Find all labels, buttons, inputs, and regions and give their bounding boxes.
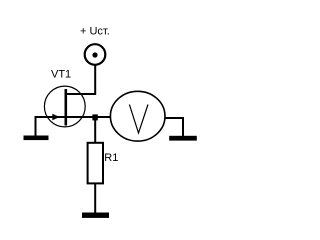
wire: terminal down and left to collector xyxy=(67,66,96,95)
transistor VT1 emitter arrow xyxy=(52,114,60,120)
wire: voltmeter right to ground xyxy=(165,118,183,136)
svg-text:R1: R1 xyxy=(104,152,118,164)
voltmeter V glyph xyxy=(129,105,148,134)
wire: R1 down to bottom ground xyxy=(94,184,96,213)
power terminal +Uct xyxy=(85,44,106,65)
ground (right) xyxy=(169,136,197,141)
voltmeter PV1 body xyxy=(110,91,165,141)
transistor VT1 base bar xyxy=(65,89,68,126)
wire: junction down to R1 xyxy=(94,119,96,142)
transistor VT1 body circle xyxy=(44,86,85,127)
ground (bottom) xyxy=(82,213,109,218)
wire: main horizontal node (ground-emitter-junction-voltmeter) xyxy=(35,116,111,118)
svg-text:+ Uст.: + Uст. xyxy=(80,26,110,38)
ground (left) xyxy=(24,136,49,141)
svg-text:VT1: VT1 xyxy=(51,69,71,81)
wire: left drop to ground xyxy=(35,117,37,136)
resistor R1 xyxy=(88,143,103,184)
junction node dot xyxy=(92,114,97,120)
